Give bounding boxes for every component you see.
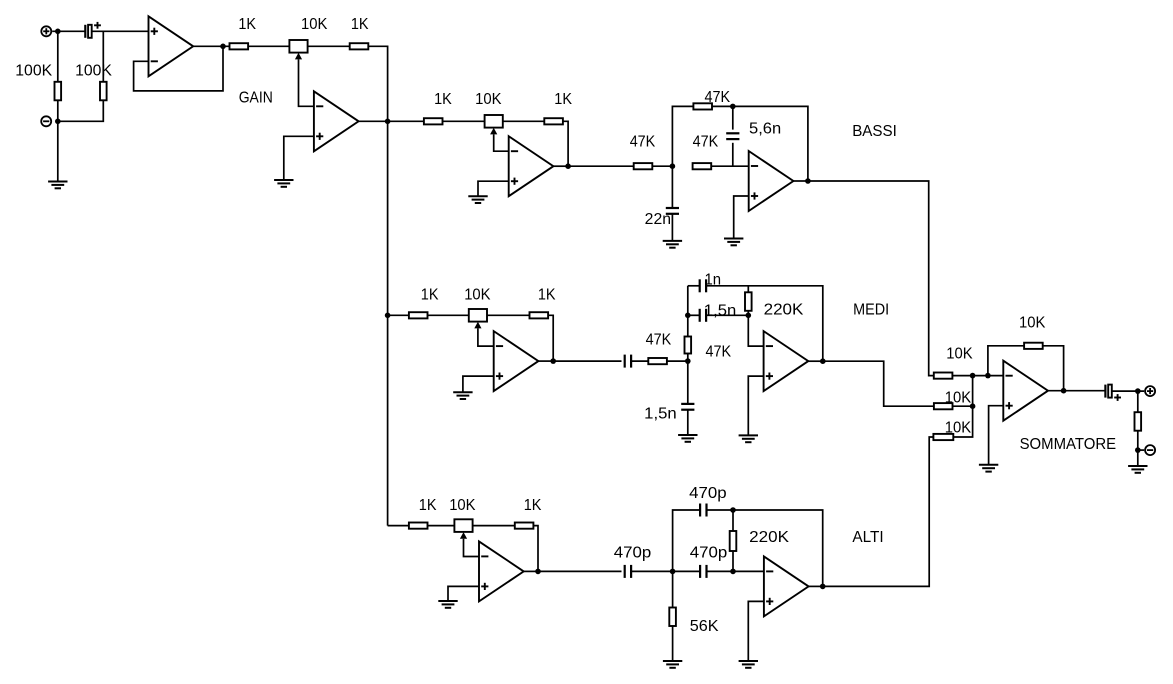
wire 1n row to R14 (747, 286, 749, 293)
svg-text:470p: 470p (689, 485, 727, 502)
wire node D to C3 (732, 106, 734, 129)
label 10K for P4 (449, 497, 476, 514)
wire C4 to R12 (631, 360, 648, 362)
wire C11 to output node (1112, 390, 1144, 392)
wire U6 output (808, 360, 823, 362)
potentiometer P2 10K BASSI (485, 115, 503, 134)
resistor R6 1K (544, 118, 563, 124)
label 100K for R1 (15, 63, 52, 80)
capacitor C10 470p mid (700, 565, 706, 578)
svg-text:47K: 47K (630, 133, 656, 150)
wire R4 to GAIN output node (368, 46, 387, 121)
junction dot node C (670, 163, 676, 169)
label 1K for R18 (524, 497, 542, 514)
wire node C down to C2 (671, 166, 673, 208)
svg-text:10K: 10K (1019, 315, 1046, 332)
wire node B to R10 (388, 314, 409, 316)
resistor R18 1K (515, 523, 534, 529)
wire C7 to ground (687, 410, 689, 435)
wire node G down to U6 inverting input (748, 315, 763, 346)
resistor R13 47K vertical (685, 337, 692, 354)
label 5,6n for C3 (749, 120, 781, 137)
wire R22 to U9 output (1043, 346, 1064, 391)
ground U3 (468, 196, 487, 203)
label 470p for C10 (690, 545, 728, 562)
wire node H to C10 (673, 570, 700, 572)
svg-text:1,5n: 1,5n (644, 406, 677, 423)
junction dot U1 output (220, 44, 226, 50)
resistor R5 1K (424, 118, 443, 124)
label 10K for P3 (464, 287, 491, 304)
wire R10 to P3 (428, 314, 469, 316)
ground U4 (724, 239, 743, 246)
junction dot U4 output (805, 178, 811, 184)
svg-text:10K: 10K (475, 91, 502, 108)
label 1n for C6 (705, 272, 722, 289)
label 10K for P2 (475, 91, 502, 108)
label 1K for R4 (351, 16, 369, 33)
svg-text:SOMMATORE: SOMMATORE (1020, 436, 1117, 453)
label 22n for C2 (645, 211, 671, 228)
wire U7 output (524, 570, 538, 572)
wire bus to R17 (388, 525, 409, 527)
svg-text:1K: 1K (238, 16, 256, 33)
junction dot U9 output (1061, 388, 1067, 394)
capacitor C3 5,6n (726, 133, 739, 139)
wire C3 to inverting row (732, 143, 734, 166)
junction dot node I (730, 507, 736, 513)
wire input+ down to R1 (57, 31, 59, 82)
junction dot node L (985, 373, 991, 379)
wire U7 noninverting input to ground (448, 586, 479, 601)
resistor R17 1K (409, 523, 428, 529)
svg-text:47K: 47K (646, 331, 672, 348)
junction dot node G (746, 313, 752, 319)
svg-text:10K: 10K (449, 497, 476, 514)
wire U5 noninverting input to ground (463, 376, 494, 392)
wire R9 to node D (712, 105, 733, 107)
svg-text:1K: 1K (434, 91, 452, 108)
wire U5 output (538, 360, 553, 362)
ground U5 (453, 392, 472, 399)
junction dot node D (730, 104, 736, 110)
label 47K for R7 (630, 133, 656, 150)
wire R2 to node IN- (58, 100, 104, 121)
junction dot bus node B (385, 313, 391, 319)
ground U9 (979, 465, 998, 472)
resistor R8 47K (693, 163, 712, 169)
wire node I to U8 output node (733, 510, 823, 586)
resistor R10 1K (409, 312, 428, 318)
resistor R15 10K (934, 373, 953, 379)
resistor R12 47K (648, 358, 667, 364)
label 1,5n for C5 (704, 302, 737, 319)
resistor R21 10K (933, 434, 953, 440)
wire U2 noninverting input to ground (284, 136, 314, 180)
resistor R7 47K (634, 163, 653, 169)
junction dot output node N (1135, 388, 1141, 394)
label 470p for C8 (614, 545, 652, 562)
capacitor C2 22n (666, 208, 679, 214)
junction dot U6 output (820, 358, 826, 364)
junction dot node O (1135, 447, 1141, 453)
junction dot node M (970, 403, 976, 409)
label 10K for R16 (945, 389, 972, 406)
wire P1 to R4 (308, 45, 350, 47)
svg-text:GAIN: GAIN (239, 89, 273, 106)
capacitor C4 series MEDI (625, 355, 631, 368)
junction dot U3 output node (565, 163, 571, 169)
svg-text:ALTI: ALTI (852, 529, 883, 546)
wire MEDI output to summing row 2 (823, 361, 934, 406)
wire U3 noninverting input to ground (478, 181, 509, 196)
svg-text:1K: 1K (524, 497, 542, 514)
label GAIN (239, 89, 273, 106)
wire P3 to R11 (487, 314, 530, 316)
resistor R20 56K (669, 608, 676, 627)
resistor R14 220K (745, 292, 752, 311)
wire bus node A down to node B (387, 121, 389, 315)
label 47K for R8 (693, 133, 719, 150)
label 220K for R19 (749, 529, 790, 546)
wire P4 wiper to U7 inverting input (464, 539, 480, 557)
svg-text:220K: 220K (749, 529, 790, 546)
wire R16 to vertical (953, 405, 973, 407)
label 1K for R10 (421, 287, 439, 304)
label 10K for R21 (945, 420, 972, 437)
svg-text:10K: 10K (301, 16, 328, 33)
label 10K for R22 (1019, 315, 1046, 332)
wire U4 output (793, 180, 808, 182)
wire R20 to ground (672, 626, 674, 661)
wire node F to C6 (688, 285, 700, 287)
label BASSI (852, 123, 897, 140)
op-amp U6 MEDI (764, 331, 809, 391)
wire R15 to node K (952, 375, 1003, 377)
wire R13 to node F (687, 315, 689, 336)
junction dot node K (970, 373, 976, 379)
junction dot GAIN output node A (385, 119, 391, 125)
junction dot U7 output node (535, 569, 541, 575)
junction dot node J (730, 569, 736, 575)
wire node H down to R20 (672, 571, 674, 607)
wire node M up to node K (972, 376, 974, 407)
wire R23 to node O (1137, 431, 1139, 450)
wire bus node B down to ALTI row (387, 315, 389, 525)
wire U3 node to R7 (568, 165, 634, 167)
ground output (1128, 466, 1147, 473)
op-amp U9 SOMMATORE (1003, 361, 1048, 421)
op-amp U8 ALTI (764, 556, 809, 616)
wire C5 to node G (706, 314, 748, 316)
junction dot U5 output node (550, 358, 556, 364)
svg-text:47K: 47K (706, 344, 732, 361)
svg-text:220K: 220K (764, 302, 805, 319)
wire P2 to R6 (503, 120, 545, 122)
wire U7 node to C8 (538, 570, 622, 572)
label 1K for R17 (419, 497, 437, 514)
resistor R16 10K (934, 403, 953, 409)
wire node E up to R13 (687, 354, 689, 362)
label 1K for R5 (434, 91, 452, 108)
svg-text:470p: 470p (614, 545, 652, 562)
op-amp U3 BASSI input (509, 136, 554, 196)
resistor R23 output (1135, 412, 1142, 431)
ground input (48, 182, 67, 189)
output terminal + (node OUT+) (1145, 386, 1155, 396)
label 100K for R2 (75, 63, 112, 80)
svg-text:MEDI: MEDI (853, 302, 889, 319)
capacitor C1 input electrolytic (85, 22, 101, 38)
label 47K for R12 (646, 331, 672, 348)
wire U9 output (1048, 390, 1105, 392)
resistor R4 1K (350, 43, 369, 49)
ground C7 (678, 435, 697, 442)
wire node O to output terminal - (1138, 449, 1144, 451)
label 220K for R14 (764, 302, 805, 319)
capacitor C8 470p series (625, 565, 631, 578)
svg-text:10K: 10K (464, 287, 491, 304)
junction dot node F (685, 313, 691, 319)
wire R21 up to node M (953, 406, 972, 437)
wire R14 to node G (747, 311, 749, 316)
label 10K for R15 (946, 346, 973, 363)
resistor R19 220K (730, 531, 737, 551)
wire node D to U4 output (733, 106, 808, 181)
wire node A to R5 (388, 120, 424, 122)
label 1K for R6 (554, 91, 572, 108)
svg-text:56K: 56K (690, 618, 719, 635)
wire C9 to node I (707, 509, 734, 511)
label 56K for R20 (690, 618, 719, 635)
op-amp U1 input buffer (149, 16, 194, 76)
wire C2 to ground (671, 214, 673, 241)
wire branch down to R2 (102, 31, 104, 82)
wire U1 feedback loop (134, 46, 223, 91)
wire R19 to node J (732, 551, 734, 571)
junction dot input+ (55, 29, 61, 35)
wire node I to R19 (732, 510, 734, 531)
wire node E down to C7 (687, 361, 689, 404)
wire P3 wiper to U5 inverting input (478, 328, 494, 346)
wire BASSI output to summing row 1 (808, 181, 934, 376)
wire U9 noninverting input to ground (989, 406, 1004, 465)
label 1K for R3 (238, 16, 256, 33)
potentiometer P4 10K ALTI (454, 519, 472, 538)
ground U2 (274, 180, 293, 187)
wire U2 output (359, 120, 388, 122)
wire P1 wiper to U2 inverting input (299, 59, 314, 106)
wire C1 to U1 noninverting input (92, 30, 149, 32)
resistor R3 1K (230, 43, 249, 49)
wire R7 to node C (652, 165, 672, 167)
label 47K for R9 (705, 89, 731, 106)
resistor R9 47K feedback (693, 103, 712, 109)
svg-text:BASSI: BASSI (852, 123, 897, 140)
wire U6 noninverting input to ground (748, 376, 763, 435)
wire C10 to node J (707, 570, 734, 572)
wire node O to ground (1137, 450, 1139, 466)
capacitor C5 1,5n (700, 309, 706, 322)
resistor R11 1K (530, 312, 549, 318)
op-amp U7 ALTI input (479, 541, 524, 601)
label 1K for R11 (538, 287, 556, 304)
wire node L up to feedback row (988, 346, 1024, 376)
resistor R1 100K (55, 82, 62, 101)
svg-text:100K: 100K (75, 63, 112, 80)
svg-text:1K: 1K (538, 287, 556, 304)
capacitor C9 470p top (700, 504, 706, 517)
svg-text:1K: 1K (421, 287, 439, 304)
wire P2 wiper to U3 inverting input (494, 134, 509, 151)
wire ALTI output to summing row 3 (823, 437, 934, 586)
label 47K for R13 (706, 344, 732, 361)
ground U6 (739, 435, 758, 442)
op-amp U5 MEDI input (494, 331, 539, 391)
label 1,5n for C7 (644, 406, 677, 423)
wire C6 to U6 output node (706, 286, 823, 361)
label MEDI (853, 302, 889, 319)
wire P4 to R18 (473, 525, 515, 527)
output terminal - (node OUT-) (1145, 445, 1155, 455)
input terminal - (node IN-) (41, 116, 51, 126)
wire U5 node to C4 (553, 360, 621, 362)
input terminal + (node IN+) (41, 26, 51, 36)
potentiometer P1 10K GAIN (289, 40, 307, 59)
label ALTI (852, 529, 883, 546)
wire R3 to P1 (248, 45, 289, 47)
wire input- to ground (57, 121, 59, 181)
wire node J to U8 inverting input (733, 570, 764, 572)
wire R12 to node E (667, 360, 688, 362)
svg-text:470p: 470p (690, 545, 728, 562)
capacitor C7 1,5n shunt (681, 404, 694, 410)
label 10K for P1 (301, 16, 328, 33)
svg-text:1,5n: 1,5n (704, 302, 737, 319)
svg-text:1K: 1K (351, 16, 369, 33)
label 470p for C9 (689, 485, 727, 502)
wire node F to C5 (688, 314, 700, 316)
wire U3 output (553, 165, 568, 167)
wire R17 to P4 (428, 525, 455, 527)
svg-text:1K: 1K (419, 497, 437, 514)
wire U8 output (809, 585, 823, 587)
wire input+ to junction (52, 30, 85, 32)
svg-text:10K: 10K (946, 346, 973, 363)
wire R18 down to U7 output node (533, 526, 538, 572)
junction dot input- (55, 119, 61, 125)
wire R1 to node IN- (57, 100, 59, 121)
wire R6 down to U3 output node (563, 121, 568, 166)
wire U8 noninverting input to ground (748, 601, 764, 661)
op-amp U2 GAIN (314, 91, 359, 151)
ground U8 (739, 661, 758, 668)
ground C2 (663, 241, 682, 248)
label SOMMATORE (1020, 436, 1117, 453)
resistor R22 10K feedback (1024, 343, 1043, 349)
svg-text:47K: 47K (693, 133, 719, 150)
capacitor C11 output electrolytic (1105, 385, 1121, 401)
wire R8 to U4 inverting input (711, 165, 749, 167)
wire U1 output (193, 45, 229, 47)
wire C8 to node H (631, 570, 673, 572)
wire U4 noninverting input to ground (734, 196, 749, 239)
op-amp U4 BASSI (749, 151, 794, 211)
ground R20 (663, 661, 682, 668)
wire node N down to R23 (1137, 391, 1139, 412)
capacitor C6 1n (700, 279, 706, 292)
junction dot node E (685, 358, 691, 364)
svg-text:5,6n: 5,6n (749, 120, 781, 137)
junction dot node H (670, 569, 676, 575)
svg-text:100K: 100K (15, 63, 52, 80)
wire R5 to P2 (443, 120, 485, 122)
wire node C up to feedback row (672, 106, 693, 166)
junction dot U8 output (820, 584, 826, 590)
svg-text:1K: 1K (554, 91, 572, 108)
ground U7 (438, 601, 457, 608)
resistor R2 100K (100, 82, 107, 101)
potentiometer P3 10K MEDI (469, 309, 487, 328)
wire node F up to 1n row (687, 286, 689, 316)
wire R11 down to U5 output node (548, 315, 553, 361)
wire node H up to 470p top row (673, 510, 701, 571)
